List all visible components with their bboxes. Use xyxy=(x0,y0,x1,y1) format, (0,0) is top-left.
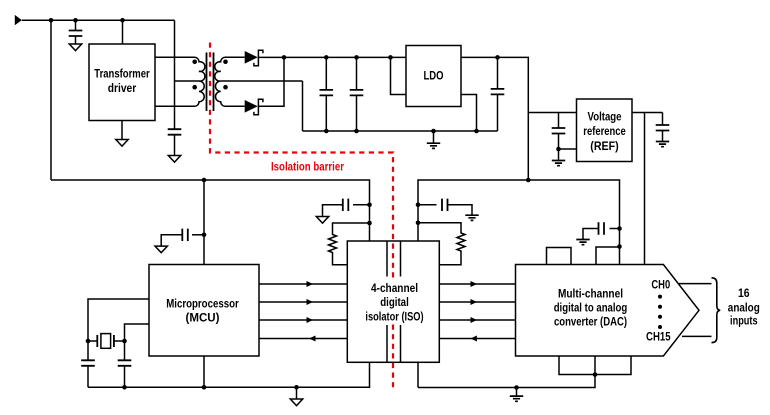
node C12 gnd xyxy=(122,385,127,390)
node DAC supply corner xyxy=(617,244,622,249)
wire REF lower pin xyxy=(559,148,577,150)
wire MCU-ISO ch3 xyxy=(259,319,347,321)
wire VCC1 rail xyxy=(51,180,370,241)
capacitor C1 xyxy=(75,20,77,30)
wire center-tap supply drop xyxy=(174,20,176,129)
capacitor C8 xyxy=(192,234,204,236)
svg-text:(REF): (REF) xyxy=(590,139,618,153)
dac channel dots xyxy=(658,295,662,299)
capacitor C3 xyxy=(324,55,329,60)
capacitor C10 xyxy=(418,204,437,206)
wire left rail down xyxy=(50,20,52,180)
ground earth under C10 xyxy=(465,215,478,220)
microprocessor U4 MCU xyxy=(149,265,259,357)
ground under C9 xyxy=(316,217,328,224)
wire analog out bottom xyxy=(682,335,712,337)
capacitor C13 xyxy=(610,228,620,230)
svg-text:digital: digital xyxy=(380,295,409,309)
wire ISO GND2 stub xyxy=(417,362,419,387)
svg-text:Voltage: Voltage xyxy=(588,110,622,124)
wire primary center tap xyxy=(175,80,200,82)
capacitor C4 xyxy=(354,55,359,60)
node driver box tap xyxy=(120,18,125,23)
ground earth on rail xyxy=(431,129,436,134)
node diode join xyxy=(282,55,287,60)
diode D2 schottky xyxy=(245,100,258,113)
wire secondary center tap xyxy=(221,80,303,82)
ground GND2 symbol xyxy=(514,385,519,390)
node cap C1 tap xyxy=(73,18,78,23)
dac top tab 1 xyxy=(547,248,572,265)
svg-text:(MCU): (MCU) xyxy=(186,311,220,325)
wire analog out top xyxy=(679,283,712,285)
transformer T1 primary winding xyxy=(155,57,205,106)
wire MCU-ISO ch1 xyxy=(259,283,347,285)
node ISO VCC1 cap tap xyxy=(367,203,372,208)
wire to driver box xyxy=(122,20,124,44)
node MCU supply tap xyxy=(202,178,207,183)
svg-text:Transformer: Transformer xyxy=(94,67,150,81)
wire GND2 rail xyxy=(418,375,595,388)
ground GND1 symbol xyxy=(294,385,299,390)
svg-text:Isolation barrier: Isolation barrier xyxy=(271,160,344,174)
svg-text:driver: driver xyxy=(108,81,137,95)
svg-text:digital to analog: digital to analog xyxy=(554,301,628,315)
capacitor C9 xyxy=(353,204,370,206)
crystal Y1 xyxy=(86,339,91,344)
ground earth under C6 xyxy=(552,161,565,166)
capacitor C11 xyxy=(81,360,95,366)
input arrow xyxy=(15,15,22,25)
ground earth under C13 xyxy=(576,240,589,245)
transformer T1 core xyxy=(207,53,214,112)
ground earth under C7 xyxy=(656,142,669,147)
wire ISO-DAC ch1 xyxy=(439,283,515,285)
wire ISO-DAC ch4 xyxy=(439,338,515,340)
wire LDO output xyxy=(461,57,528,180)
resistor R2 xyxy=(418,223,465,265)
svg-text:isolator (ISO): isolator (ISO) xyxy=(365,309,423,323)
node ISO VCC2 cap tap xyxy=(416,203,421,208)
ground xyxy=(168,156,180,163)
svg-text:analog: analog xyxy=(728,300,760,314)
dac bottom tabs xyxy=(559,356,631,375)
svg-text:inputs: inputs xyxy=(730,314,758,328)
svg-text:converter (DAC): converter (DAC) xyxy=(554,314,627,328)
svg-text:reference: reference xyxy=(583,124,626,138)
capacitor C7 xyxy=(662,113,664,126)
svg-text:Multi-channel: Multi-channel xyxy=(558,287,623,301)
wire MCU-ISO ch4 xyxy=(259,338,347,340)
ground xyxy=(69,44,81,51)
wire MCU xtal pin2 xyxy=(125,324,150,360)
wire center tap return xyxy=(302,81,304,131)
wire REF to DAC xyxy=(644,113,646,265)
svg-text:16: 16 xyxy=(738,286,750,300)
svg-text:CH15: CH15 xyxy=(646,330,671,344)
wire ISO-DAC ch3 xyxy=(439,319,515,321)
transformer driver U1 xyxy=(89,44,155,121)
wire MCU xtal pin1 xyxy=(88,299,149,360)
wire GND1 rail xyxy=(88,362,370,387)
transformer T1 secondary phase dots xyxy=(223,60,228,65)
node VCC2 junction xyxy=(526,178,531,183)
dac converter U6 xyxy=(516,265,700,357)
wire top rail xyxy=(22,19,175,21)
capacitor C6 xyxy=(558,113,560,129)
node C8 tap xyxy=(202,233,207,238)
wire secondary ground rail xyxy=(303,130,498,132)
transformer T1 primary phase dots xyxy=(192,60,197,65)
svg-text:CH0: CH0 xyxy=(651,277,670,291)
svg-text:Microprocessor: Microprocessor xyxy=(166,297,239,311)
isolation barrier dashed line xyxy=(210,43,393,278)
resistor R1 xyxy=(329,223,370,265)
ground under driver xyxy=(121,121,123,140)
wire ISO-DAC ch2 xyxy=(439,301,515,303)
capacitor C2 xyxy=(168,129,182,135)
transformer T1 secondary winding xyxy=(215,57,245,106)
svg-text:LDO: LDO xyxy=(424,69,444,83)
capacitor C5 xyxy=(495,55,500,60)
wire LDO enable stub xyxy=(388,55,393,60)
diode D1 schottky xyxy=(245,51,258,64)
brace 16 channels xyxy=(712,278,721,343)
node DAC ground xyxy=(593,372,598,377)
node top rail junction left xyxy=(49,18,54,23)
ground under C8 xyxy=(155,246,167,253)
wire REF input xyxy=(528,112,576,114)
wire D2 to output xyxy=(258,57,284,106)
wire REF output xyxy=(632,112,663,114)
node C13 tap xyxy=(617,226,622,231)
node R1 tap xyxy=(367,221,372,226)
regulator LDO U2 xyxy=(406,46,461,107)
node R2 tap xyxy=(416,221,421,226)
svg-text:4-channel: 4-channel xyxy=(371,281,418,295)
wire LDO ground return xyxy=(461,95,477,132)
isolation barrier dashed line lower xyxy=(392,325,394,392)
dac top tab 2 xyxy=(596,247,620,265)
capacitor C12 xyxy=(118,360,132,366)
isolator U5 ISO xyxy=(347,241,439,362)
wire MCU ground stub xyxy=(203,356,205,387)
wire rectified output xyxy=(258,56,406,58)
wire VCC2 rail xyxy=(418,180,620,247)
voltage reference U3 xyxy=(577,99,633,162)
wire MCU supply drop xyxy=(203,180,205,265)
wire MCU-ISO ch2 xyxy=(259,301,347,303)
